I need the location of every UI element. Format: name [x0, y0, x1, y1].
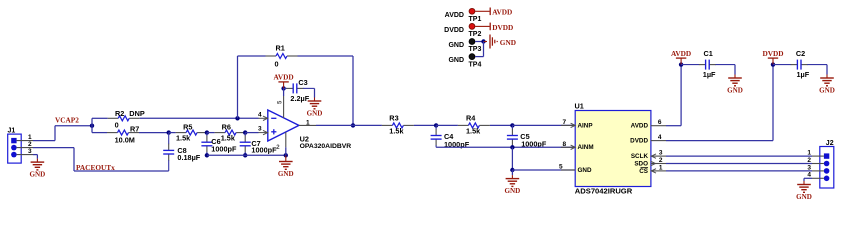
svg-text:GND: GND: [278, 170, 294, 178]
ground (op-amp): [278, 158, 294, 178]
resistor R4: [458, 114, 490, 136]
svg-text:5: 5: [559, 164, 563, 171]
wire R4 to node J: [490, 124, 513, 126]
wire R7 to node D: [139, 132, 169, 134]
node TP junction: [481, 39, 485, 43]
svg-text:2: 2: [659, 157, 663, 164]
wire R3 to node I: [414, 124, 436, 126]
svg-text:10.0M: 10.0M: [115, 136, 135, 145]
svg-text:OPA320AIDBVR: OPA320AIDBVR: [300, 143, 352, 150]
wire feedback left: [238, 56, 266, 118]
svg-text:R7: R7: [130, 124, 139, 133]
svg-text:R6: R6: [222, 122, 231, 131]
svg-text:DVDD: DVDD: [444, 27, 464, 34]
testpoint TP3: [448, 39, 481, 54]
svg-text:AINP: AINP: [578, 122, 593, 129]
wire J2 pin4 to ground: [804, 178, 812, 181]
svg-text:R1: R1: [276, 43, 285, 52]
power AVDD (rail): [671, 49, 691, 65]
node C6 bottom: [205, 153, 209, 157]
svg-text:4: 4: [258, 111, 262, 118]
svg-text:1: 1: [28, 134, 32, 141]
svg-text:GND: GND: [578, 167, 592, 174]
wire J1 pin3 to ground: [33, 155, 37, 159]
op-amp U2: [258, 96, 351, 155]
svg-text:AVDD: AVDD: [492, 8, 512, 17]
svg-text:AVDD: AVDD: [631, 123, 649, 130]
svg-text:ADS7042IRUGR: ADS7042IRUGR: [575, 187, 633, 196]
svg-text:R3: R3: [389, 114, 398, 123]
power AVDD (TP1): [475, 8, 512, 17]
resistor R1: [266, 43, 298, 68]
svg-text:GND: GND: [448, 42, 464, 49]
svg-text:4: 4: [807, 172, 811, 179]
ground (J2): [796, 181, 812, 201]
wire VCAP2 net: [33, 116, 92, 141]
svg-text:0: 0: [115, 121, 119, 130]
connector J1: [8, 127, 34, 163]
svg-text:0: 0: [275, 60, 279, 69]
capacitor C1: [681, 49, 735, 79]
node L junction: [510, 168, 514, 172]
svg-text:1µF: 1µF: [703, 70, 716, 79]
capacitor C7: [240, 133, 277, 156]
wire U1 pin6 to AVDD rail: [666, 65, 681, 126]
node AVDD junction: [679, 62, 683, 66]
svg-text:GND: GND: [30, 171, 46, 179]
svg-text:CS: CS: [639, 168, 648, 175]
svg-text:R5: R5: [183, 122, 192, 131]
svg-text:J2: J2: [826, 140, 834, 147]
node A junction: [90, 124, 94, 128]
svg-text:1000pF: 1000pF: [251, 145, 277, 154]
node E junction: [205, 130, 209, 134]
svg-text:SDO: SDO: [634, 160, 648, 167]
svg-text:1: 1: [659, 165, 663, 172]
wire node I to R4: [436, 124, 458, 126]
capacitor C2: [773, 49, 827, 79]
ground (TP3 right): [484, 35, 517, 49]
svg-text:SCLK: SCLK: [631, 153, 649, 160]
wire PACEOUTx net: [33, 148, 169, 172]
svg-text:AVDD: AVDD: [274, 73, 294, 82]
svg-text:AINM: AINM: [578, 144, 594, 151]
svg-text:C1: C1: [704, 49, 713, 58]
node D junction: [167, 130, 171, 134]
wire C6 C7 to ground node: [207, 154, 286, 156]
svg-text:1.5k: 1.5k: [389, 126, 404, 135]
svg-text:3: 3: [659, 150, 663, 157]
wire node A to R7: [92, 132, 107, 134]
svg-text:1.5k: 1.5k: [466, 126, 481, 135]
capacitor C3: [284, 78, 315, 103]
wire node G down: [285, 155, 287, 158]
svg-text:8: 8: [563, 141, 567, 148]
connector J2: [807, 140, 833, 188]
svg-text:2.2µF: 2.2µF: [290, 94, 309, 103]
svg-text:DNP: DNP: [129, 109, 145, 118]
wire node C to R3: [353, 124, 382, 126]
ground (C3): [307, 98, 323, 118]
wire R2 to op-amp pin4: [140, 117, 259, 119]
wire TP4 to TP3 junction: [475, 42, 483, 57]
svg-text:DVDD: DVDD: [762, 49, 783, 58]
wire node A vertical: [91, 118, 93, 132]
svg-text:3: 3: [807, 164, 811, 171]
svg-text:3: 3: [28, 148, 32, 155]
ground (U1): [505, 175, 521, 195]
svg-text:GND: GND: [307, 110, 323, 118]
wire feedback right: [298, 56, 354, 125]
wire node K down: [511, 147, 513, 170]
wire node J to U1 AINP: [512, 124, 575, 126]
wire U1 pin4 to DVDD rail: [666, 65, 773, 141]
svg-text:AVDD: AVDD: [671, 49, 691, 58]
svg-text:GND: GND: [819, 87, 835, 95]
wire node A to R2: [92, 117, 108, 119]
wire node D to R5: [169, 132, 176, 134]
node C junction: [351, 123, 355, 127]
wire R6 to node F: [245, 132, 246, 134]
svg-text:R4: R4: [466, 114, 476, 123]
resistor R3: [382, 114, 414, 136]
IC U1 box: [575, 102, 651, 196]
svg-text:PACEOUTx: PACEOUTx: [76, 163, 115, 172]
capacitor C5: [507, 125, 547, 148]
svg-text:DVDD: DVDD: [492, 23, 513, 32]
ground (J1): [30, 159, 46, 179]
node I junction: [434, 123, 438, 127]
svg-text:DVDD: DVDD: [630, 138, 648, 145]
power DVDD (TP2): [475, 23, 513, 32]
power AVDD (op-amp): [274, 73, 294, 89]
resistor R5: [176, 122, 208, 142]
svg-text:1.5k: 1.5k: [221, 133, 236, 142]
wire SDO net: [666, 163, 812, 165]
svg-text:GND: GND: [500, 38, 516, 47]
capacitor C4: [431, 125, 470, 149]
svg-text:3: 3: [258, 125, 262, 132]
svg-text:R2: R2: [115, 109, 124, 118]
svg-text:C2: C2: [796, 49, 805, 58]
wire AINM line: [436, 146, 575, 148]
ground (C2): [819, 75, 835, 95]
svg-text:6: 6: [658, 119, 662, 126]
svg-text:TP2: TP2: [469, 31, 482, 38]
wire AVDD to op-amp pin5: [283, 88, 285, 96]
wire node L down: [511, 170, 513, 175]
wire TP3 to junction: [475, 41, 483, 43]
node DVDD junction: [771, 62, 775, 66]
svg-text:TP1: TP1: [469, 16, 482, 23]
ground (C1): [727, 75, 743, 95]
svg-text:1: 1: [306, 119, 310, 126]
svg-text:GND: GND: [448, 57, 464, 64]
svg-text:AVDD: AVDD: [445, 12, 464, 19]
svg-text:J1: J1: [8, 127, 16, 134]
testpoint TP1: [445, 8, 482, 23]
svg-text:2: 2: [807, 157, 811, 164]
capacitor C6: [201, 133, 237, 156]
wire CS net: [666, 170, 812, 172]
testpoint TP2: [444, 24, 481, 39]
wire C3 to ground: [314, 88, 316, 97]
wire C1 to ground: [734, 65, 736, 75]
resistor R6: [215, 122, 247, 142]
resistor R2: [108, 109, 145, 129]
svg-text:1.5k: 1.5k: [176, 133, 191, 142]
wire ground line to U1 GND: [512, 169, 575, 171]
capacitor C8: [163, 133, 201, 171]
svg-text:VCAP2: VCAP2: [55, 116, 79, 125]
svg-text:C3: C3: [298, 78, 307, 87]
svg-text:GND: GND: [796, 193, 812, 201]
node K junction: [510, 145, 514, 149]
svg-text:GND: GND: [727, 87, 743, 95]
svg-text:GND: GND: [505, 187, 521, 195]
wire node F to op-amp pin3: [245, 132, 258, 134]
wire SCLK net: [666, 155, 812, 157]
node F junction: [243, 130, 247, 134]
svg-text:1000pF: 1000pF: [211, 144, 237, 153]
node J junction: [510, 123, 514, 127]
svg-text:7: 7: [563, 119, 567, 126]
testpoint TP4: [448, 54, 481, 69]
svg-text:2: 2: [28, 141, 32, 148]
wire C2 to ground: [826, 65, 828, 75]
node G junction: [284, 153, 288, 157]
svg-text:1µF: 1µF: [797, 70, 810, 79]
svg-text:1: 1: [807, 150, 811, 157]
wire op-amp output: [316, 124, 353, 126]
svg-text:TP4: TP4: [469, 61, 482, 68]
svg-text:4: 4: [658, 134, 662, 141]
resistor R7: [107, 124, 139, 144]
svg-text:TP3: TP3: [469, 46, 482, 53]
IC U1 pins: [559, 119, 666, 175]
power DVDD (rail): [762, 49, 783, 65]
svg-text:0.18µF: 0.18µF: [177, 153, 200, 162]
node C7 bottom: [243, 153, 247, 157]
svg-text:U1: U1: [575, 102, 584, 111]
node op-amp AVDD junction: [281, 86, 285, 90]
node B junction: [235, 116, 239, 120]
wire node E to R6: [207, 132, 215, 134]
wire R5 to node E: [206, 132, 209, 134]
